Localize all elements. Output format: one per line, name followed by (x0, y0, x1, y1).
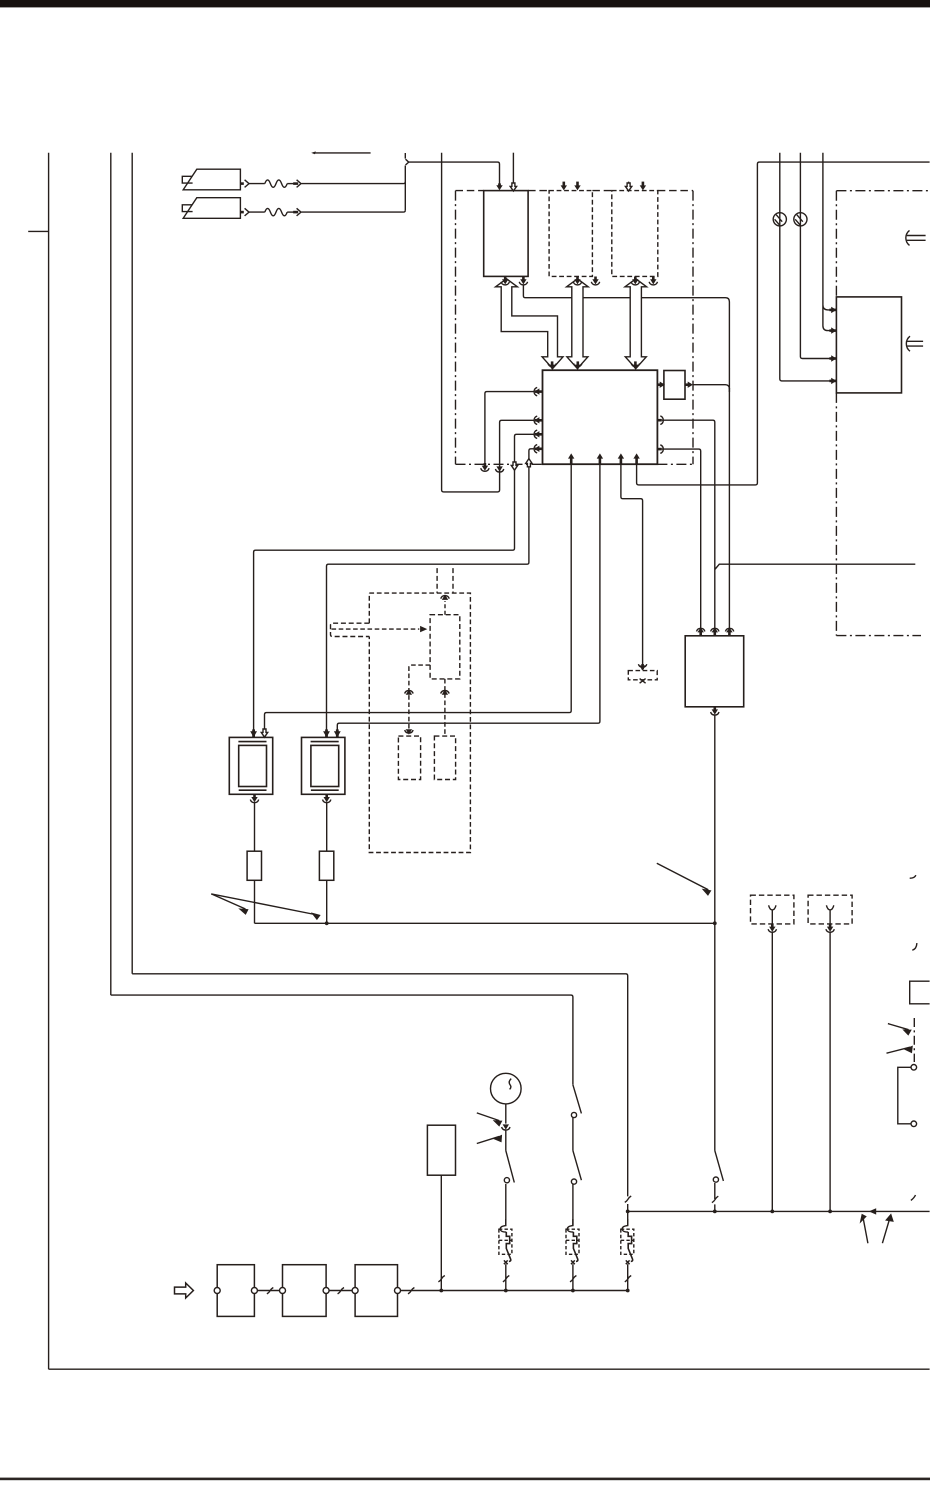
wire ECU bottom pin1 to coil L1 pin2 (265, 464, 572, 730)
hook arrow out of B1 bottom left (501, 277, 509, 285)
terminal FL1 right (251, 1288, 257, 1294)
box B3 (dashed) (612, 191, 658, 277)
wire sensor S1 output with shield squiggle (249, 180, 405, 188)
wire long feed lower to key switch column (111, 995, 573, 1085)
right edge box fragment (910, 981, 930, 1004)
arrow into right box pin1 (829, 307, 836, 313)
fuse F3 (621, 1219, 634, 1291)
right edge dash-dot fragment (913, 1018, 915, 1062)
hook arrow out of C1 (768, 924, 776, 932)
accessory bus (628, 1210, 930, 1212)
ECU bottom pin 4 arrow (633, 453, 639, 464)
right box (meter ECU) (836, 297, 901, 393)
node junction F3 (626, 1289, 630, 1293)
ignition coil L1 (229, 737, 272, 794)
hook arrow stub B3 bottom right (649, 277, 657, 285)
wire ECU pin3 to coil L1 (254, 434, 535, 729)
wire FL2 to FL3 (329, 1288, 352, 1294)
fusible link box FL2 (283, 1265, 327, 1317)
bus arrow B3 to ECU (625, 279, 647, 369)
terminal Y in C2 (826, 905, 833, 924)
bus arrow B2 to ECU (567, 279, 589, 369)
node junction F1 (504, 1289, 508, 1293)
ECU right pin 3 arrow (657, 445, 663, 454)
wire bus vertical left B (131, 153, 133, 974)
node sensor junction riser (405, 153, 408, 210)
hook arrow out of B2 bottom left (573, 277, 581, 285)
node junction tach switch (713, 1210, 717, 1214)
right edge dash fragment upper (910, 875, 916, 878)
terminal Y in C1 (769, 905, 776, 924)
wire ECU bottom pin4 to top-right rail (637, 162, 930, 485)
leader arrows at right edge (887, 1024, 913, 1054)
ECU main box (543, 370, 658, 464)
wire lamp feed 1 (780, 153, 830, 381)
igniter hook arrow riser2 (711, 627, 719, 636)
top page rule bar (0, 0, 930, 7)
box B1 sensor interface (484, 191, 528, 277)
bottom page rule (0, 1478, 930, 1481)
wire C2 to accessory bus (829, 932, 831, 1212)
terminal FL1 left (214, 1288, 220, 1294)
frame tick (28, 230, 48, 232)
resistor R1 (247, 851, 261, 880)
node junction F2 (571, 1289, 575, 1293)
check connector T (dashed) (628, 671, 657, 680)
wire igniter riser 3 (728, 388, 730, 630)
arrow into B1 pin1 (498, 183, 501, 187)
switch blade on tach line (712, 1151, 724, 1212)
terminal FL2 left (280, 1288, 286, 1294)
pickup coil box (dashed) (430, 615, 460, 679)
ECU bottom pin 3 arrow (618, 453, 624, 464)
box B2 (dashed) (549, 191, 592, 277)
hook arrow out of coil L2 (323, 794, 331, 802)
arrow into coil L2 pin1 (323, 729, 330, 737)
hollow arrow into coil L1 pin2 (261, 729, 267, 737)
node junction igniter bus (713, 921, 717, 925)
hook arrow stub B2 bottom right (591, 277, 599, 285)
igniter hook arrow riser1 (697, 627, 705, 636)
tick main bus left (408, 1288, 414, 1294)
node junction condenser (439, 1289, 443, 1293)
hook arrow out of coil L1 (250, 794, 258, 802)
sensor S1 (182, 169, 249, 190)
node junction R2 bus (325, 921, 329, 925)
hook arrow on lamp wire (502, 1124, 510, 1150)
wire long feed upper to ignition switch column (132, 974, 628, 1197)
right edge relay fragment (898, 1065, 917, 1127)
hook arrow out of igniter bottom (711, 707, 719, 715)
wire ECU bottom pin2 to coil L2 pin2 (337, 464, 600, 730)
hook arrow pin1 at boundary (481, 463, 489, 471)
ignition main column tick (625, 1196, 631, 1202)
hollow arrow into B1 pin2 (510, 183, 516, 191)
wire R2 to ground bus (326, 880, 328, 923)
leader arrow to igniter ground wire (657, 863, 711, 895)
ground bus under coils (255, 922, 715, 924)
wire feed to right box pins 1-2 (823, 153, 830, 331)
warning lamp 2 (794, 213, 807, 226)
wire sensor S2 output with shield squiggle (249, 208, 405, 216)
hollow arrow pin4 at boundary (up) (526, 459, 532, 467)
wire coil L2 to resistor R2 (326, 802, 328, 851)
dashed arrow up from pickup to channel (441, 595, 449, 615)
wire lamp feed 2 (800, 153, 829, 359)
fusible link box FL1 (217, 1265, 254, 1317)
leader line top center (311, 151, 370, 154)
hook arrow into check connector (638, 664, 646, 671)
dashed wire pickup to rotor plug A (405, 665, 430, 735)
arrow into right box pin2 (829, 327, 836, 333)
hook arrow pin2 at boundary (495, 466, 503, 472)
dashed wire pickup to rotor plug B (441, 679, 449, 736)
frame bottom border (49, 1368, 930, 1370)
wire lamp down (505, 1104, 507, 1124)
rotor plug box A (dashed) (398, 736, 420, 779)
wire B1 to igniter riser (523, 284, 729, 392)
wire coil L1 to resistor R1 (254, 802, 256, 851)
sensor S2 (182, 198, 249, 219)
hook arrow into ECU top 2 (574, 361, 582, 369)
wire U2 to igniter riser 3 (693, 385, 729, 389)
connector symbol upper right (906, 230, 926, 245)
leader arrows below accessory bus (861, 1215, 893, 1243)
hook arrow out of C2 (826, 924, 834, 932)
ECU left pin 4 arrow (534, 445, 542, 453)
condenser box (427, 1125, 455, 1175)
hollow arrow pin3 at boundary (511, 462, 517, 470)
wire bus vertical left A (110, 153, 112, 995)
arrow into coil L1 pin1 (250, 729, 257, 737)
wire condenser to main bus (438, 1175, 444, 1290)
wire ECU right pin3 to igniter riser 1 (662, 449, 701, 629)
ignition coil L2 (302, 737, 345, 794)
hollow arrow stub into B3 pin1 (625, 182, 631, 191)
power flow block arrow (175, 1283, 194, 1298)
battery box FL3 (355, 1265, 397, 1317)
wire sensor feed to ignition box B1 (409, 162, 500, 184)
wire FL1 to FL2 (257, 1288, 279, 1294)
arrow stub into B2 pin2 (574, 182, 580, 191)
leader arrows to lamp wire (477, 1113, 502, 1144)
distributor dashed enclosure (369, 593, 470, 852)
wire R1 to ground bus (254, 880, 256, 923)
wire ECU pin4 to coil L2 (327, 449, 535, 730)
dashed signal wire into pickup (332, 626, 428, 632)
leader arrows to resistor wires (211, 894, 319, 919)
rotor plug box B (dashed) (434, 736, 455, 779)
arrow into right box pin4 (829, 378, 836, 384)
terminal FL3 left (352, 1288, 358, 1294)
hook arrow out of B3 bottom left (631, 277, 639, 285)
wire branch riser2 to right stub rail (715, 564, 916, 569)
wire ECU bottom pin3 to check connector (621, 464, 643, 665)
right edge dash fragment mid (912, 943, 917, 950)
resistor R2 (319, 851, 333, 880)
hook arrow into ECU top 1 (548, 361, 556, 369)
terminal FL2 right (323, 1288, 329, 1294)
ECU bottom pin 2 arrow (597, 453, 603, 464)
node junction C1 (770, 1210, 774, 1214)
wire ECU right pin2 to igniter riser 2 (662, 420, 715, 629)
arrow into coil L2 pin2 (334, 729, 341, 737)
arrowhead on accessory bus (869, 1208, 876, 1214)
arrow out of U2 to enclosure edge (685, 382, 693, 388)
wire main column to fuse F3 (627, 1204, 629, 1226)
arrow into right box pin3 (829, 355, 836, 361)
connector symbol on right box (906, 336, 923, 351)
bus arrow B1 to ECU (L-shaped, double headed) (496, 279, 563, 369)
arrow stub into B3 pin2 (640, 182, 646, 191)
arrow stub into B2 pin1 (561, 182, 567, 191)
dashed entry pocket (331, 623, 370, 636)
node junction bus feed (626, 1210, 630, 1214)
ECU left pin 1 arrow (534, 387, 542, 395)
igniter box (685, 636, 744, 707)
wire ECU pin2 loop to stub riser (442, 153, 535, 492)
wire stub vertical into B1 pin2 (512, 153, 514, 185)
voltmeter lamp (491, 1073, 522, 1104)
fuse F1 (499, 1219, 512, 1291)
ECU left pin 3 arrow (534, 430, 542, 438)
ECU bottom pin 1 arrow (568, 453, 574, 464)
main ignition bus (401, 1290, 628, 1292)
ECU left pin 2 arrow (534, 416, 542, 424)
switch blades key column (571, 1085, 581, 1226)
node junction C2 (828, 1210, 832, 1214)
wire ECU pin1 to boundary (485, 392, 534, 464)
hook arrow out of B1 bottom right (519, 277, 527, 285)
wire igniter to tachometer switch (714, 715, 716, 1151)
right edge tick fragment low (911, 1195, 916, 1200)
terminal FL3 right (395, 1288, 401, 1294)
combination meter dash-dot enclosure (836, 191, 929, 636)
hook arrow into ECU top 3 (631, 361, 639, 369)
warning lamp 1 (773, 213, 786, 226)
ECU assembly dash-dot enclosure (456, 191, 694, 465)
ECU right pin 2 arrow (657, 416, 663, 425)
connector box C2 (dashed) (808, 895, 852, 924)
distributor top channel (dashed) (437, 568, 453, 593)
switch blade lamp column (504, 1151, 514, 1226)
connector box C1 (dashed) (751, 895, 794, 924)
node check connector terminal x (640, 679, 646, 684)
ECU right pin 1 arrow into interface box (657, 382, 665, 388)
igniter hook arrow riser3 (725, 627, 733, 636)
interface box U2 (664, 371, 685, 400)
frame left border (48, 153, 50, 1370)
fuse F2 (566, 1219, 579, 1291)
wire C1 to accessory bus (771, 932, 773, 1212)
